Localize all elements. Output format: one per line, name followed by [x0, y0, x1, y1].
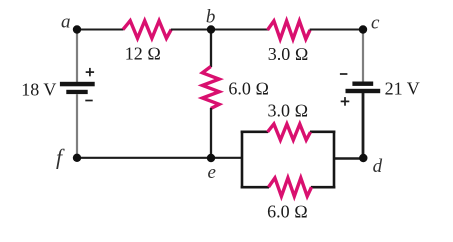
wire b to R2 — [211, 29, 268, 31]
wire R2 to c — [310, 29, 363, 31]
node d — [359, 154, 367, 162]
resistor R4 3.0 ohm parallel top — [268, 124, 311, 140]
node b — [207, 25, 215, 33]
svg-text:3.0 Ω: 3.0 Ω — [268, 100, 309, 120]
svg-text:d: d — [373, 156, 383, 177]
parallel box left side — [241, 131, 244, 189]
wire box to d — [334, 157, 363, 159]
wire a to R1 — [77, 29, 124, 31]
resistor R3 6.0 ohm vertical — [202, 67, 219, 109]
wire b down to R3 — [210, 30, 212, 68]
svg-text:e: e — [207, 162, 215, 183]
node e — [207, 154, 215, 162]
parallel box top edge right — [310, 131, 335, 134]
resistor R2 3.0 ohm — [268, 21, 311, 39]
wire R1 to b — [171, 29, 211, 31]
wire V1 down to f — [76, 94, 78, 158]
node f — [73, 154, 81, 162]
resistor R1 12 ohm — [123, 21, 171, 39]
wire a down to battery V1 — [76, 30, 78, 83]
parallel box bottom edge left — [241, 186, 269, 189]
parallel box right side — [333, 131, 336, 189]
svg-text:f: f — [56, 144, 65, 169]
wire f to e to box — [77, 157, 243, 159]
parallel box top edge left — [241, 131, 268, 134]
resistor R5 6.0 ohm parallel bottom — [269, 178, 312, 196]
plus sign V1 — [86, 68, 94, 76]
svg-text:6.0 Ω: 6.0 Ω — [267, 202, 308, 222]
plus sign V2 — [341, 97, 350, 106]
battery V1 18 V plate long — [60, 82, 95, 87]
svg-text:6.0 Ω: 6.0 Ω — [228, 79, 269, 99]
node c — [359, 25, 367, 33]
svg-text:18 V: 18 V — [21, 79, 56, 99]
minus sign V2 — [340, 73, 348, 75]
wire c down to battery V2 — [362, 30, 364, 82]
svg-text:3.0 Ω: 3.0 Ω — [268, 44, 309, 64]
wire V2 down to d — [362, 93, 365, 158]
svg-text:21 V: 21 V — [385, 78, 420, 98]
wire R3 down to e — [210, 108, 212, 158]
battery V2 plate short — [352, 82, 373, 86]
battery V2 21 V plate long — [346, 89, 381, 93]
svg-text:c: c — [371, 13, 380, 34]
minus sign V1 — [85, 100, 92, 102]
svg-text:12 Ω: 12 Ω — [125, 43, 161, 63]
svg-text:b: b — [206, 6, 216, 27]
battery V1 plate short — [66, 90, 87, 94]
svg-text:a: a — [61, 12, 71, 33]
parallel box bottom edge right — [311, 186, 335, 189]
node a — [73, 25, 81, 33]
